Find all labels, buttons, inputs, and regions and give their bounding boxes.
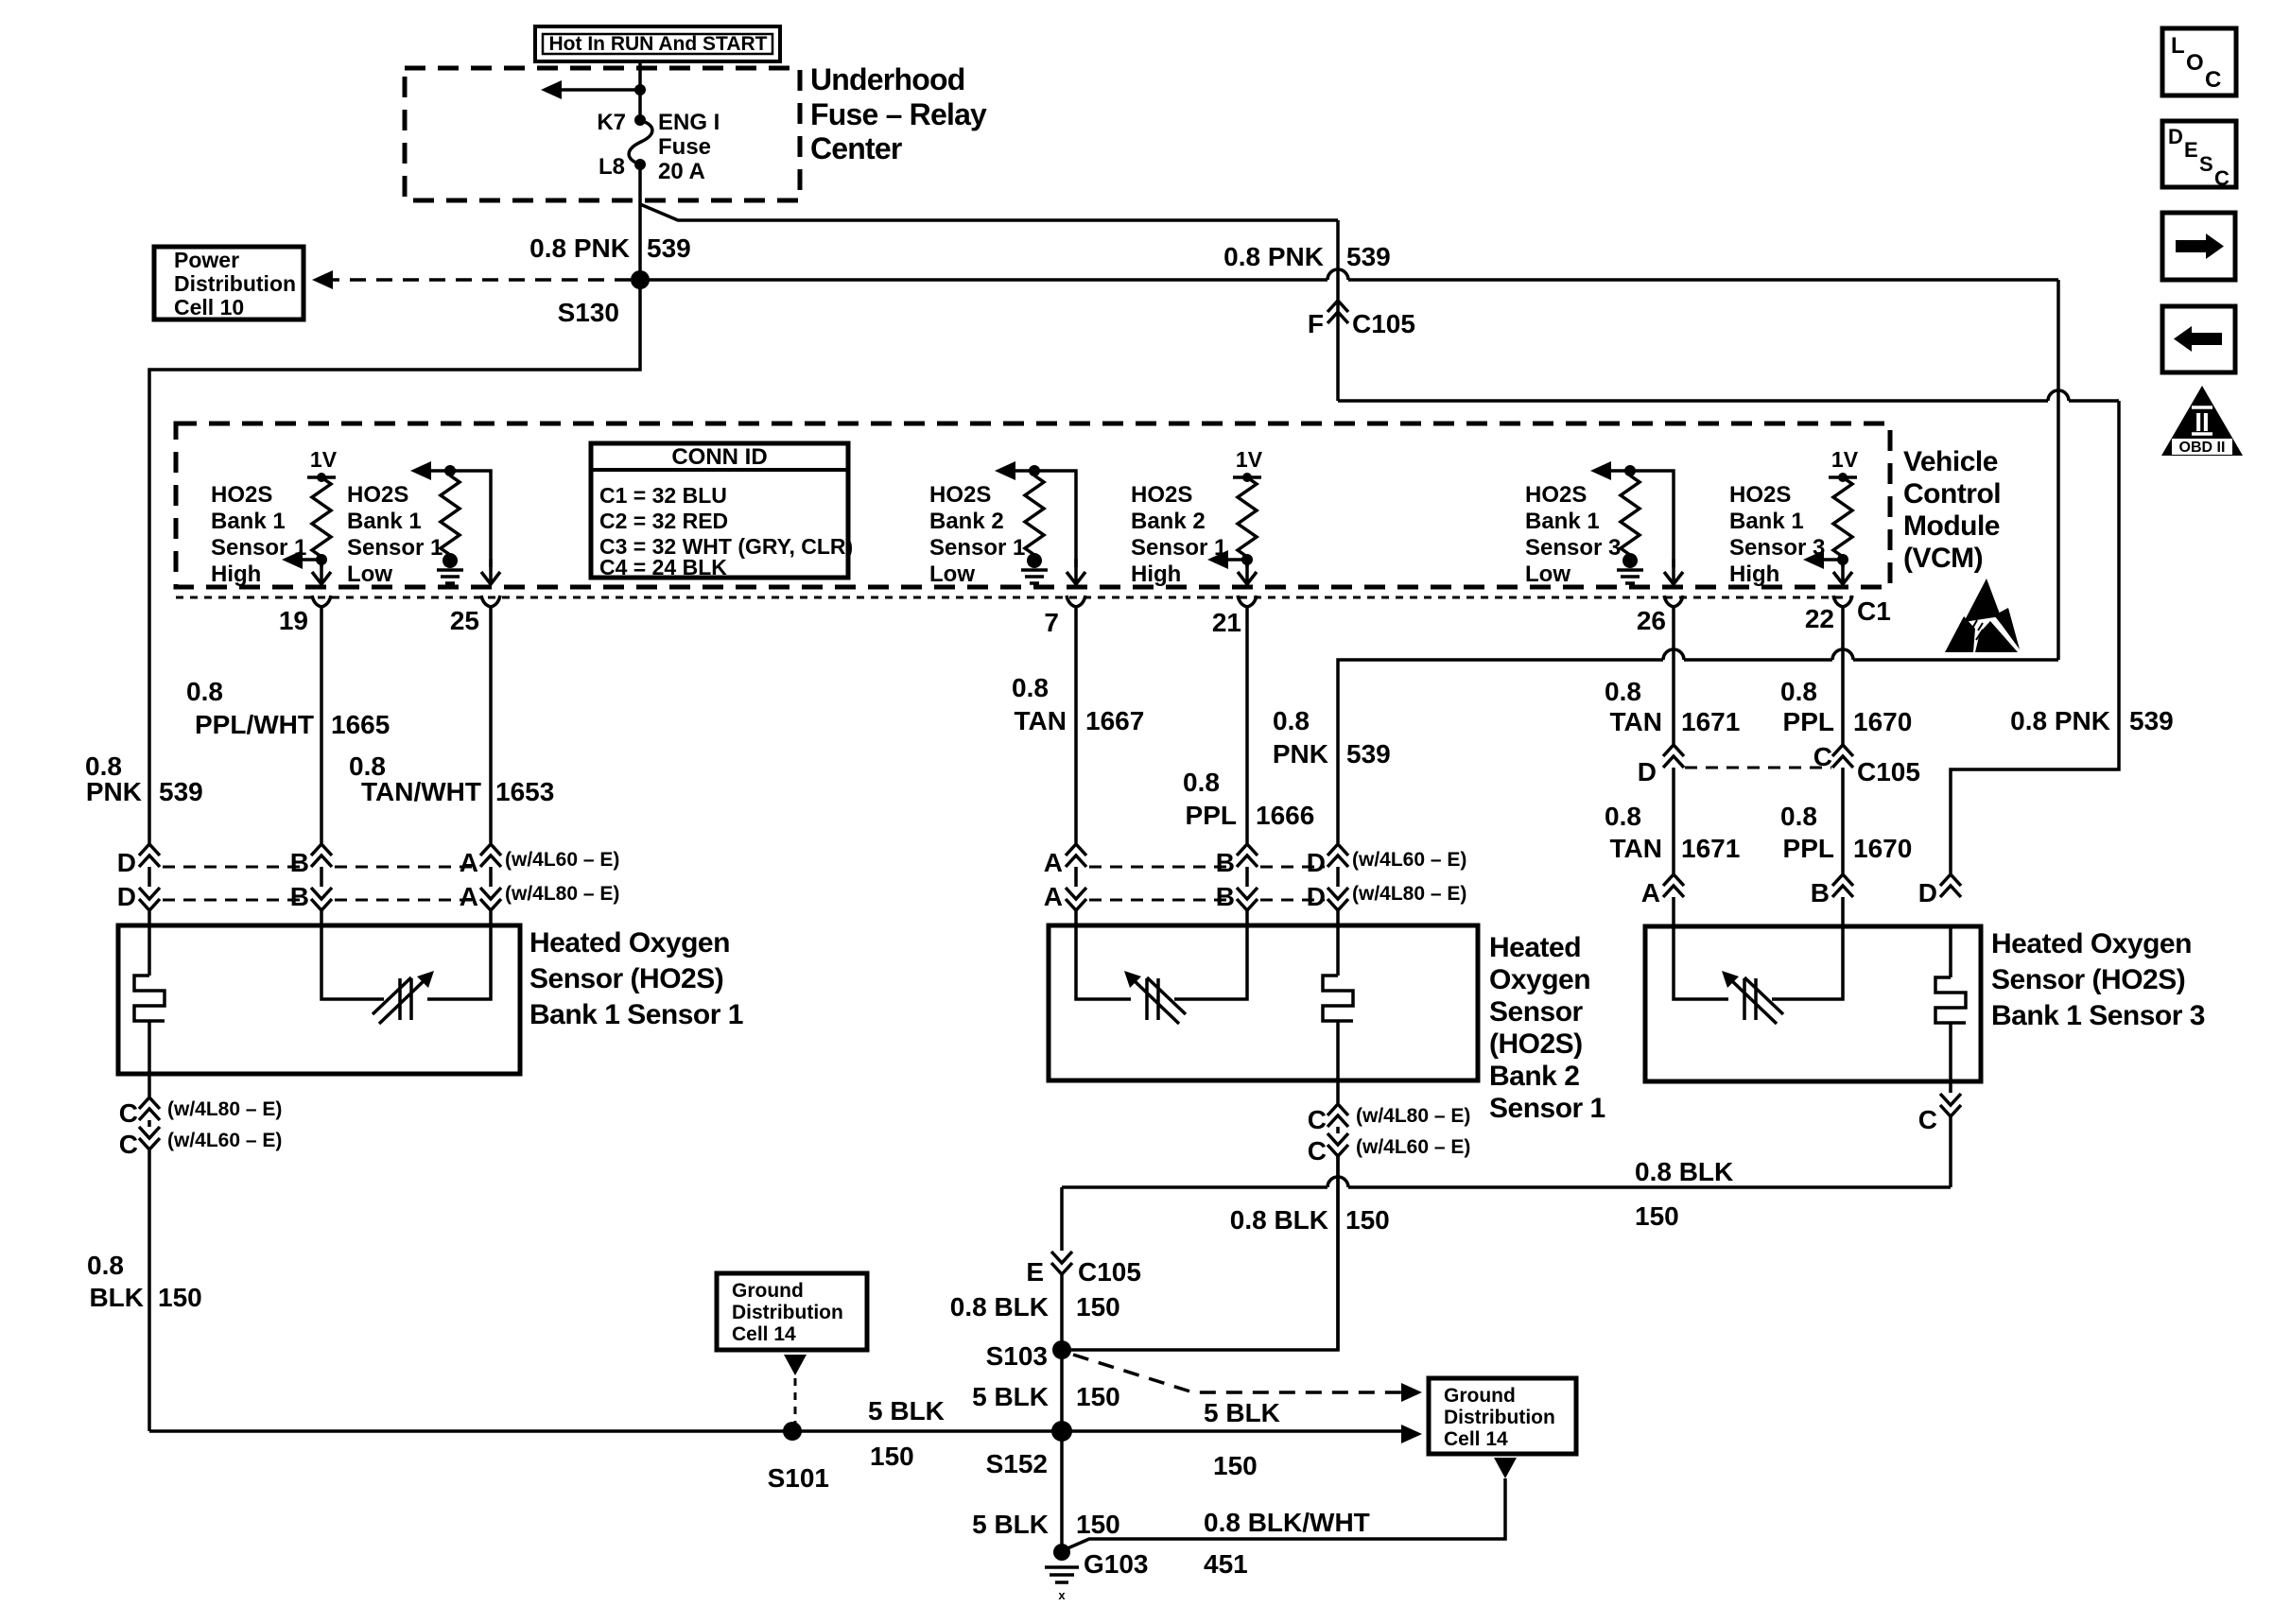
connector C105 pins D and C (right group) (1638, 742, 1920, 786)
icon: back arrow box (2162, 306, 2235, 372)
svg-text:1666: 1666 (1256, 801, 1314, 830)
label: HO2S sensor (1131, 482, 1226, 587)
splice S103 (986, 1340, 1071, 1371)
svg-text:D: D (117, 882, 136, 911)
wire to pin (312, 559, 331, 584)
svg-text:TAN/WHT: TAN/WHT (361, 777, 481, 806)
label: 0.8 PNK 539 (upper right of S130) (1223, 242, 1391, 271)
svg-text:(w/4L80 – E): (w/4L80 – E) (167, 1098, 282, 1120)
label: Vehicle Control Module (VCM) (1903, 446, 2001, 574)
svg-text:S101: S101 (768, 1463, 829, 1493)
svg-text:Hot In RUN And START: Hot In RUN And START (549, 33, 768, 55)
splice S130 (631, 270, 650, 289)
svg-text:PPL: PPL (1783, 707, 1834, 736)
svg-text:C2 = 32 RED: C2 = 32 RED (599, 509, 728, 533)
svg-text:O: O (2186, 50, 2204, 76)
svg-text:150: 150 (1345, 1205, 1390, 1235)
svg-text:Bank 1: Bank 1 (1729, 509, 1804, 534)
svg-text:HO2S: HO2S (211, 482, 272, 508)
ground G103 (1045, 1544, 1149, 1602)
label: HO2S sensor (1525, 482, 1621, 587)
ground (internal) (1617, 553, 1643, 583)
resistor (sensing element bias) (1621, 475, 1640, 555)
signal line with arrow (995, 461, 1085, 584)
icon: OBD II triangle (2161, 386, 2243, 456)
svg-text:S130: S130 (558, 298, 619, 327)
svg-text:HO2S: HO2S (929, 482, 991, 508)
wire: branch from fuse output to C105 pin F (640, 204, 1338, 220)
label: 0.8 BLK 150 (left drop) (87, 1251, 202, 1312)
label box: Ground Distribution Cell 14 (right) (1429, 1378, 1576, 1454)
svg-text:A: A (1641, 878, 1660, 907)
svg-text:Sensor (HO2S): Sensor (HO2S) (1991, 964, 2185, 995)
svg-text:150: 150 (1076, 1382, 1120, 1411)
svg-text:25: 25 (450, 606, 479, 635)
svg-text:1665: 1665 (331, 710, 390, 739)
svg-text:0.8 BLK: 0.8 BLK (1635, 1157, 1733, 1186)
svg-text:ENG I: ENG I (658, 110, 720, 135)
svg-text:OBD II: OBD II (2179, 440, 2226, 456)
svg-text:(w/4L80 – E): (w/4L80 – E) (1352, 883, 1466, 905)
svg-text:(VCM): (VCM) (1903, 543, 1983, 574)
resistor (sensing element bias) (1238, 477, 1257, 557)
svg-text:B: B (290, 848, 309, 877)
svg-text:(HO2S): (HO2S) (1489, 1028, 1583, 1060)
svg-text:E: E (2184, 138, 2198, 162)
node with signal arrow (1803, 550, 1848, 569)
svg-text:PNK: PNK (86, 777, 142, 806)
connector C105 pin E (1026, 1252, 1141, 1287)
svg-text:HO2S: HO2S (347, 482, 408, 508)
svg-text:(w/4L60 – E): (w/4L60 – E) (1352, 849, 1466, 871)
svg-text:0.8: 0.8 (87, 1251, 124, 1280)
wire: from F down then right to PNK drop, hops over VCM right wire (1338, 390, 2119, 401)
svg-text:PNK: PNK (1273, 739, 1328, 769)
svg-text:150: 150 (1213, 1451, 1258, 1480)
svg-text:C: C (1308, 1105, 1327, 1134)
wire: BLK 150 bus from E drop to right sensor C, hops over middle drop (1062, 1177, 1951, 1187)
fuse ENG I 20A, terminals K7 / L8 (597, 110, 720, 184)
svg-text:Heated Oxygen: Heated Oxygen (529, 927, 730, 959)
connector row w/4L80-E (left group D,B,A) (117, 882, 620, 911)
1V supply (307, 447, 338, 482)
svg-text:Center: Center (810, 131, 902, 165)
svg-text:Bank 1: Bank 1 (211, 509, 286, 534)
svg-text:Sensor 3: Sensor 3 (1525, 535, 1621, 561)
wire: S130 down and left to left edge (149, 280, 640, 845)
component: Heated Oxygen Sensor (HO2S) Bank 1 Sensor 3 (1645, 926, 1981, 1081)
wire: S103 down to S152 (1060, 1350, 1064, 1431)
svg-text:5 BLK: 5 BLK (868, 1396, 945, 1425)
svg-text:C4 = 24 BLK: C4 = 24 BLK (599, 555, 727, 579)
svg-text:D: D (1307, 848, 1326, 877)
svg-text:Low: Low (929, 561, 975, 587)
wire: S130 right to VCM area (PNK 539), hops over C105 drop (640, 278, 2058, 282)
connector row w/4L60-E (middle group A,B,D) (1044, 844, 1467, 877)
svg-text:0.8 BLK: 0.8 BLK (1230, 1205, 1328, 1235)
wire: pin 21 PPL 1666 down to HO2S B2S1 pin B (1245, 605, 1249, 925)
wire: PNK 539 left drop to HO2S B1S1 pin D (147, 867, 151, 925)
svg-text:D: D (117, 848, 136, 877)
label: 5 BLK 150 (S152-G103) (972, 1510, 1120, 1539)
resistor (sensing element bias) (1025, 475, 1044, 555)
connector C105 pin F (1308, 301, 1415, 338)
svg-text:C105: C105 (1352, 309, 1415, 338)
svg-text:1670: 1670 (1853, 707, 1912, 736)
ground (internal) (437, 553, 463, 583)
svg-text:Sensor (HO2S): Sensor (HO2S) (529, 963, 723, 994)
svg-text:Sensor 1: Sensor 1 (1489, 1093, 1605, 1124)
wire: dashed from S103 to Ground Distribution Cell 14 (1073, 1355, 1422, 1402)
resistor (sensing element bias) (1833, 477, 1852, 557)
wire hops over pins 26/22 (1663, 649, 1853, 660)
svg-text:Bank 1 Sensor 3: Bank 1 Sensor 3 (1991, 1000, 2205, 1031)
svg-text:5 BLK: 5 BLK (1204, 1398, 1280, 1427)
svg-text:Bank 1: Bank 1 (1525, 509, 1600, 534)
wire: E drop from bus (1060, 1187, 1064, 1350)
svg-text:S103: S103 (986, 1341, 1048, 1371)
wire: S103 right and up to middle sensor drop (1062, 1156, 1338, 1350)
svg-text:1670: 1670 (1853, 834, 1912, 863)
svg-text:Low: Low (1525, 561, 1570, 587)
svg-text:II: II (2195, 407, 2210, 437)
svg-text:Cell 14: Cell 14 (732, 1323, 796, 1345)
svg-text:0.8: 0.8 (1605, 802, 1641, 831)
svg-text:PPL: PPL (1783, 834, 1834, 863)
svg-text:HO2S: HO2S (1729, 482, 1791, 508)
wire: down right side of VCM (2056, 280, 2060, 660)
svg-text:Heated: Heated (1489, 932, 1581, 963)
svg-text:Bank 2: Bank 2 (1131, 509, 1206, 534)
svg-text:Low: Low (347, 561, 392, 587)
svg-text:(w/4L80 – E): (w/4L80 – E) (1356, 1105, 1470, 1127)
svg-text:Underhood: Underhood (810, 62, 964, 96)
svg-text:Distribution: Distribution (732, 1302, 843, 1323)
svg-text:C: C (119, 1098, 138, 1128)
label box: Hot In RUN And START (535, 26, 780, 61)
svg-text:PPL: PPL (1186, 801, 1237, 830)
svg-text:0.8 PNK: 0.8 PNK (529, 233, 630, 263)
svg-text:Vehicle: Vehicle (1903, 446, 1998, 477)
svg-text:0.8: 0.8 (1183, 768, 1220, 797)
svg-text:Fuse: Fuse (658, 134, 711, 160)
svg-text:Bank 1 Sensor 1: Bank 1 Sensor 1 (529, 999, 743, 1030)
svg-text:150: 150 (870, 1442, 914, 1471)
wire: ground bus 5 BLK 150 (149, 1429, 1405, 1433)
resistor (sensing element bias) (312, 477, 331, 557)
label: 5 BLK 150 (S101-S152) (868, 1396, 945, 1471)
connector C1 dotted edge (176, 596, 1851, 599)
svg-text:539: 539 (1346, 739, 1391, 769)
svg-text:Module: Module (1903, 510, 2000, 542)
wire: fuse output down to S130 (638, 164, 642, 280)
wire: pin 7 TAN 1667 down to HO2S B2S1 pin A (1074, 605, 1078, 925)
svg-text:Sensor: Sensor (1489, 996, 1584, 1028)
svg-text:x: x (1058, 1588, 1066, 1602)
label: 0.8 PNK 539 (left feed) (529, 233, 691, 263)
connector C1 pin receptacles and pin numbers (279, 596, 1852, 637)
svg-text:(w/4L60 – E): (w/4L60 – E) (167, 1130, 282, 1151)
label: Underhood Fuse-Relay Center (810, 62, 987, 165)
svg-text:A: A (460, 882, 478, 911)
svg-text:Heated Oxygen: Heated Oxygen (1991, 928, 2192, 959)
svg-text:(w/4L60 – E): (w/4L60 – E) (505, 849, 619, 871)
svg-text:150: 150 (1076, 1510, 1120, 1539)
svg-text:C: C (2214, 166, 2230, 190)
wire: S152 down to G103 (1060, 1431, 1064, 1552)
icon: forward arrow box (2162, 213, 2235, 280)
svg-text:HO2S: HO2S (1525, 482, 1587, 508)
label: Heated Oxygen Sensor (HO2S) Bank 2 Sensor 1 (1489, 932, 1605, 1124)
svg-text:Oxygen: Oxygen (1489, 964, 1590, 995)
svg-text:TAN: TAN (1610, 707, 1662, 736)
label: 0.8 PNK 539 (far right) (2010, 706, 2174, 735)
svg-text:0.8: 0.8 (1780, 677, 1817, 706)
connector row w/4L80-E (middle group A,B,D) (1044, 882, 1467, 911)
svg-text:E: E (1026, 1257, 1044, 1287)
wire: pin 26 TAN 1671 down through C105 D to HO2S B1S3 pin A (1672, 605, 1675, 926)
svg-text:C: C (1918, 1105, 1937, 1134)
svg-text:C: C (2205, 67, 2221, 93)
label: 0.8 PNK 539 (middle drop) (1273, 706, 1391, 769)
svg-text:B: B (1811, 878, 1830, 907)
svg-text:0.8 PNK: 0.8 PNK (1223, 242, 1324, 271)
connector row w/4L60-E (left group D,B,A) (117, 844, 620, 877)
icon: DESC box (2162, 121, 2236, 190)
svg-text:D: D (2168, 125, 2183, 148)
wire to pin (1833, 559, 1852, 584)
wire: PNK 539 drop to HO2S bank1 sensor3 (1951, 401, 2119, 873)
svg-text:1671: 1671 (1681, 834, 1740, 863)
svg-text:PPL/WHT: PPL/WHT (195, 710, 314, 739)
label: HO2S sensor (929, 482, 1025, 587)
svg-text:1667: 1667 (1085, 706, 1144, 735)
svg-text:0.8 PNK: 0.8 PNK (2010, 706, 2110, 735)
CONN ID table (591, 443, 853, 579)
svg-text:High: High (1729, 561, 1779, 587)
splice S152 (986, 1421, 1072, 1478)
label: 0.8 PPL/WHT 1665 (186, 677, 390, 739)
svg-text:C105: C105 (1078, 1257, 1141, 1287)
wire: dashed to Power Distribution Cell 10 (312, 270, 631, 289)
wire to pin (1238, 559, 1257, 584)
svg-text:BLK: BLK (89, 1283, 144, 1312)
label: 0.8 PPL 1670 (lower) (1780, 802, 1912, 863)
svg-text:22: 22 (1805, 604, 1834, 633)
wire hop over x=1415 (1327, 269, 1348, 280)
label: 0.8 TAN 1671 (lower) (1605, 802, 1740, 863)
label: 0.8 BLK 150 (right, two lines) (1635, 1157, 1733, 1231)
connector row (right group A,B,D) (1641, 874, 1961, 907)
svg-text:L: L (2171, 33, 2185, 59)
icon: ESD warning (inside VCM) (1945, 579, 2020, 652)
svg-text:C: C (1813, 742, 1832, 771)
svg-text:Distribution: Distribution (1444, 1407, 1555, 1428)
svg-text:Sensor 1: Sensor 1 (929, 535, 1025, 561)
svg-text:D: D (1638, 757, 1657, 786)
svg-text:Sensor 1: Sensor 1 (347, 535, 442, 561)
svg-text:Cell 14: Cell 14 (1444, 1428, 1508, 1450)
svg-text:A: A (460, 848, 478, 877)
svg-text:26: 26 (1637, 606, 1666, 635)
svg-text:High: High (211, 561, 261, 587)
svg-text:539: 539 (2129, 706, 2174, 735)
label: Heated Oxygen Sensor (HO2S) Bank 1 Sensor 1 (529, 927, 743, 1030)
svg-text:20 A: 20 A (658, 159, 705, 184)
Underhood Fuse-Relay Center dashed box (405, 68, 800, 200)
svg-text:C105: C105 (1857, 757, 1920, 786)
svg-text:B: B (290, 882, 309, 911)
wire: pin 22 PPL 1670 down through C105 C to HO2S B1S3 pin B (1841, 605, 1845, 926)
label: 0.8 PPL 1666 (1183, 768, 1314, 830)
svg-text:C: C (119, 1130, 138, 1159)
svg-text:539: 539 (647, 233, 691, 263)
label: HO2S sensor (211, 482, 306, 587)
label: 0.8 BLK 150 (E drop) (950, 1292, 1120, 1322)
svg-text:0.8: 0.8 (186, 677, 223, 706)
label: HO2S sensor (347, 482, 442, 587)
label: 0.8 BLK/WHT 451 (1204, 1508, 1370, 1579)
component: Heated Oxygen Sensor (HO2S) Bank 1 Sensor 1 (118, 925, 520, 1074)
signal line with arrow (1590, 461, 1683, 584)
svg-text:D: D (1307, 882, 1326, 911)
label: 0.8 BLK 150 (middle drop) (1230, 1205, 1390, 1235)
svg-text:Bank 2: Bank 2 (929, 509, 1004, 534)
ground (internal) (1021, 553, 1048, 583)
signal line with arrow (410, 461, 500, 584)
svg-text:451: 451 (1204, 1549, 1248, 1579)
connector C rows below HO2S B2S1 (w/4L80-E, w/4L60-E) (1308, 1080, 1471, 1350)
label: Heated Oxygen Sensor (HO2S) Bank 1 Sensor 3 (1991, 928, 2205, 1031)
svg-text:C1: C1 (1857, 596, 1891, 626)
svg-text:1653: 1653 (495, 777, 554, 806)
svg-text:Distribution: Distribution (174, 271, 296, 296)
1V supply (1829, 447, 1859, 482)
wire: dashed drop to S101 (784, 1355, 807, 1423)
svg-text:0.8 BLK: 0.8 BLK (950, 1292, 1049, 1322)
svg-text:1671: 1671 (1681, 707, 1740, 736)
splice S101 (768, 1422, 829, 1493)
svg-text:High: High (1131, 561, 1181, 587)
svg-text:G103: G103 (1084, 1549, 1149, 1579)
svg-text:Ground: Ground (1444, 1385, 1516, 1407)
1V supply (1233, 447, 1263, 482)
svg-text:Sensor 1: Sensor 1 (1131, 535, 1226, 561)
wire: PNK 539 middle drop to HO2S B2S1 pin D (1338, 660, 2058, 925)
label: 0.8 TAN/WHT 1653 (349, 752, 554, 806)
svg-text:F: F (1308, 309, 1324, 338)
svg-text:A: A (1044, 882, 1063, 911)
svg-text:S152: S152 (986, 1449, 1048, 1478)
svg-text:A: A (1044, 848, 1063, 877)
VCM dashed box (176, 423, 1890, 587)
label: 0.8 TAN 1667 (1012, 673, 1144, 735)
label box: Ground Distribution Cell 14 (left) (717, 1273, 867, 1350)
svg-text:Power: Power (174, 248, 239, 272)
svg-text:Cell 10: Cell 10 (174, 295, 244, 320)
svg-text:1V: 1V (310, 447, 338, 472)
svg-text:150: 150 (1076, 1292, 1120, 1322)
label: 0.8 TAN 1671 (upper) (1605, 677, 1740, 736)
label: 0.8 PPL 1670 (upper) (1780, 677, 1912, 736)
svg-text:0.8: 0.8 (1780, 802, 1817, 831)
svg-text:Control: Control (1903, 478, 2001, 510)
svg-text:5 BLK: 5 BLK (972, 1510, 1049, 1539)
svg-text:D: D (1918, 878, 1937, 907)
label: 0.8 PNK 539 (left drop) (85, 752, 203, 806)
svg-text:0.8: 0.8 (1605, 677, 1641, 706)
component: Heated Oxygen Sensor (HO2S) Bank 2 Sensor 1 (1049, 925, 1478, 1080)
svg-text:CONN ID: CONN ID (671, 444, 767, 470)
svg-text:1V: 1V (1831, 447, 1859, 472)
svg-text:1V: 1V (1236, 447, 1263, 472)
svg-text:Fuse – Relay: Fuse – Relay (810, 97, 987, 131)
svg-text:7: 7 (1044, 608, 1059, 637)
svg-text:TAN: TAN (1610, 834, 1662, 863)
svg-text:Ground: Ground (732, 1280, 804, 1302)
svg-text:K7: K7 (597, 110, 626, 135)
svg-text:(w/4L60 – E): (w/4L60 – E) (1356, 1136, 1470, 1158)
label: HO2S sensor (1729, 482, 1825, 587)
label: Power Distribution Cell 10 (inside underhood box) (154, 247, 304, 320)
svg-text:C: C (1308, 1136, 1327, 1166)
svg-text:(w/4L80 – E): (w/4L80 – E) (505, 883, 619, 905)
icon: LOC box (2162, 28, 2236, 95)
svg-text:0.8: 0.8 (1273, 706, 1310, 735)
wire: pin 25 TAN/WHT 1653 down to HO2S B1S1 pin A (489, 605, 493, 925)
node with signal arrow (1207, 550, 1253, 569)
svg-text:C1 = 32 BLU: C1 = 32 BLU (599, 483, 727, 508)
svg-text:539: 539 (159, 777, 203, 806)
label: 5 BLK 150 (S152 right) (1204, 1398, 1280, 1480)
wire: arrow branch to Power Distribution Cell 10 (internal) (541, 80, 646, 99)
svg-text:B: B (1216, 882, 1235, 911)
svg-text:L8: L8 (599, 154, 625, 180)
connector C rows below HO2S B1S1 (w/4L80-E, w/4L60-E) (119, 1074, 283, 1431)
node with signal arrow (282, 550, 327, 569)
svg-text:Bank 1: Bank 1 (347, 509, 422, 534)
wire: 0.8 BLK/WHT 451 from G103 to ground distribution (1067, 1458, 1517, 1548)
svg-text:Bank 2: Bank 2 (1489, 1061, 1579, 1092)
svg-text:B: B (1216, 848, 1235, 877)
wire: feed from Hot In RUN into fuse block (638, 61, 642, 119)
svg-text:0.8 BLK/WHT: 0.8 BLK/WHT (1204, 1508, 1370, 1537)
resistor (sensing element bias) (441, 475, 460, 555)
svg-text:19: 19 (279, 606, 308, 635)
label: 5 BLK 150 (S103-S152) (972, 1382, 1120, 1411)
svg-text:5 BLK: 5 BLK (972, 1382, 1049, 1411)
svg-text:0.8: 0.8 (1012, 673, 1049, 702)
svg-text:HO2S: HO2S (1131, 482, 1192, 508)
connector C below HO2S B1S3 (1918, 1081, 1961, 1187)
svg-text:S: S (2199, 152, 2213, 176)
svg-text:539: 539 (1346, 242, 1391, 271)
wire: C105 F drop from y233 (1336, 220, 1340, 401)
svg-text:150: 150 (158, 1283, 202, 1312)
svg-text:TAN: TAN (1015, 706, 1067, 735)
svg-text:21: 21 (1212, 608, 1241, 637)
svg-text:150: 150 (1635, 1201, 1679, 1231)
wire: pin 19 PPL/WHT 1665 down to HO2S B1S1 pin B (320, 605, 323, 925)
